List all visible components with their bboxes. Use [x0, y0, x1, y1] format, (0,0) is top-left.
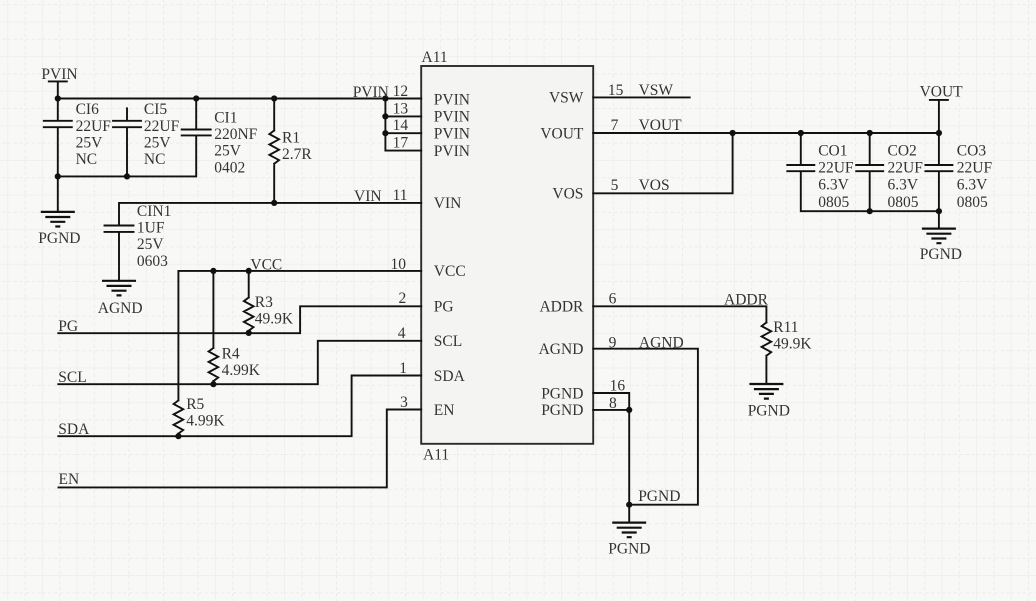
svg-text:25V: 25V — [214, 143, 242, 160]
svg-text:R11: R11 — [773, 319, 798, 336]
svg-text:2: 2 — [399, 290, 407, 307]
svg-text:ADDR: ADDR — [724, 291, 769, 308]
svg-text:25V: 25V — [144, 134, 172, 151]
svg-text:220NF: 220NF — [214, 126, 257, 143]
svg-text:AGND: AGND — [539, 341, 584, 358]
svg-text:PVIN: PVIN — [434, 126, 470, 143]
svg-text:R3: R3 — [255, 294, 273, 311]
svg-text:PGND: PGND — [748, 403, 790, 420]
svg-text:R4: R4 — [222, 345, 240, 362]
svg-text:17: 17 — [393, 134, 409, 151]
svg-text:6.3V: 6.3V — [957, 177, 988, 194]
svg-text:49.9K: 49.9K — [255, 311, 294, 328]
svg-text:25V: 25V — [76, 134, 104, 151]
svg-text:AGND: AGND — [98, 300, 143, 317]
svg-text:1: 1 — [399, 360, 407, 377]
svg-text:PVIN: PVIN — [434, 109, 470, 126]
svg-text:6.3V: 6.3V — [818, 177, 849, 194]
svg-text:R1: R1 — [282, 129, 300, 146]
svg-text:AGND: AGND — [639, 334, 684, 351]
svg-text:R5: R5 — [186, 396, 204, 413]
svg-text:0603: 0603 — [137, 253, 168, 270]
svg-text:4: 4 — [398, 325, 406, 342]
svg-text:VOUT: VOUT — [639, 117, 683, 134]
svg-text:VSW: VSW — [639, 82, 674, 99]
svg-text:VSW: VSW — [549, 90, 584, 107]
svg-text:SDA: SDA — [434, 368, 466, 385]
svg-text:PGND: PGND — [638, 488, 680, 505]
svg-text:22UF: 22UF — [818, 160, 854, 177]
svg-text:VCC: VCC — [250, 256, 282, 273]
svg-text:1UF: 1UF — [137, 220, 165, 237]
svg-text:22UF: 22UF — [888, 160, 924, 177]
svg-text:22UF: 22UF — [76, 118, 112, 135]
svg-text:SDA: SDA — [58, 421, 90, 438]
svg-text:PG: PG — [434, 299, 454, 316]
svg-text:11: 11 — [393, 187, 408, 204]
svg-text:EN: EN — [434, 402, 455, 419]
svg-text:SCL: SCL — [58, 369, 86, 386]
svg-text:PVIN: PVIN — [353, 84, 389, 101]
svg-text:VCC: VCC — [434, 263, 466, 280]
svg-text:6.3V: 6.3V — [888, 177, 919, 194]
svg-text:CO2: CO2 — [888, 142, 917, 159]
svg-text:VOS: VOS — [552, 186, 583, 203]
svg-text:ADDR: ADDR — [539, 299, 584, 316]
svg-text:VIN: VIN — [434, 195, 462, 212]
svg-text:CIN1: CIN1 — [137, 203, 171, 220]
svg-text:49.9K: 49.9K — [773, 336, 812, 353]
svg-text:PGND: PGND — [38, 230, 80, 247]
svg-text:CO3: CO3 — [957, 142, 987, 159]
svg-text:CI1: CI1 — [214, 110, 237, 127]
svg-text:7: 7 — [611, 117, 619, 134]
svg-text:3: 3 — [400, 394, 408, 411]
svg-text:CO1: CO1 — [818, 142, 847, 159]
svg-text:15: 15 — [608, 82, 624, 99]
svg-text:VOUT: VOUT — [540, 125, 584, 142]
svg-text:9: 9 — [609, 334, 617, 351]
svg-text:0805: 0805 — [957, 194, 988, 211]
svg-text:PG: PG — [58, 318, 78, 335]
svg-text:12: 12 — [393, 83, 409, 100]
svg-text:0402: 0402 — [214, 159, 245, 176]
svg-text:PGND: PGND — [608, 540, 650, 557]
svg-text:VOUT: VOUT — [920, 84, 964, 101]
svg-text:PVIN: PVIN — [41, 66, 77, 83]
svg-text:22UF: 22UF — [144, 118, 180, 135]
svg-text:22UF: 22UF — [957, 160, 993, 177]
svg-text:SCL: SCL — [434, 333, 462, 350]
svg-text:4.99K: 4.99K — [186, 412, 225, 429]
svg-text:NC: NC — [144, 151, 166, 168]
svg-text:4.99K: 4.99K — [222, 362, 261, 379]
svg-text:6: 6 — [609, 291, 617, 308]
svg-text:CI5: CI5 — [144, 101, 168, 118]
svg-text:2.7R: 2.7R — [282, 146, 312, 163]
svg-text:13: 13 — [393, 101, 409, 118]
svg-text:PVIN: PVIN — [434, 91, 470, 108]
svg-text:PGND: PGND — [541, 402, 583, 419]
svg-text:10: 10 — [391, 256, 407, 273]
svg-text:8: 8 — [609, 395, 617, 412]
svg-text:VOS: VOS — [639, 177, 670, 194]
svg-text:0805: 0805 — [888, 194, 919, 211]
svg-text:PGND: PGND — [920, 246, 962, 263]
svg-text:14: 14 — [393, 117, 409, 134]
svg-text:0805: 0805 — [818, 194, 849, 211]
svg-text:16: 16 — [610, 377, 626, 394]
svg-text:PGND: PGND — [541, 385, 583, 402]
svg-text:25V: 25V — [137, 236, 165, 253]
svg-text:CI6: CI6 — [76, 101, 100, 118]
svg-text:PVIN: PVIN — [434, 143, 470, 160]
svg-text:VIN: VIN — [354, 188, 382, 205]
svg-text:A11: A11 — [423, 447, 449, 464]
svg-text:A11: A11 — [422, 49, 448, 66]
svg-text:EN: EN — [59, 471, 80, 488]
svg-text:NC: NC — [76, 151, 98, 168]
svg-text:5: 5 — [611, 177, 619, 194]
